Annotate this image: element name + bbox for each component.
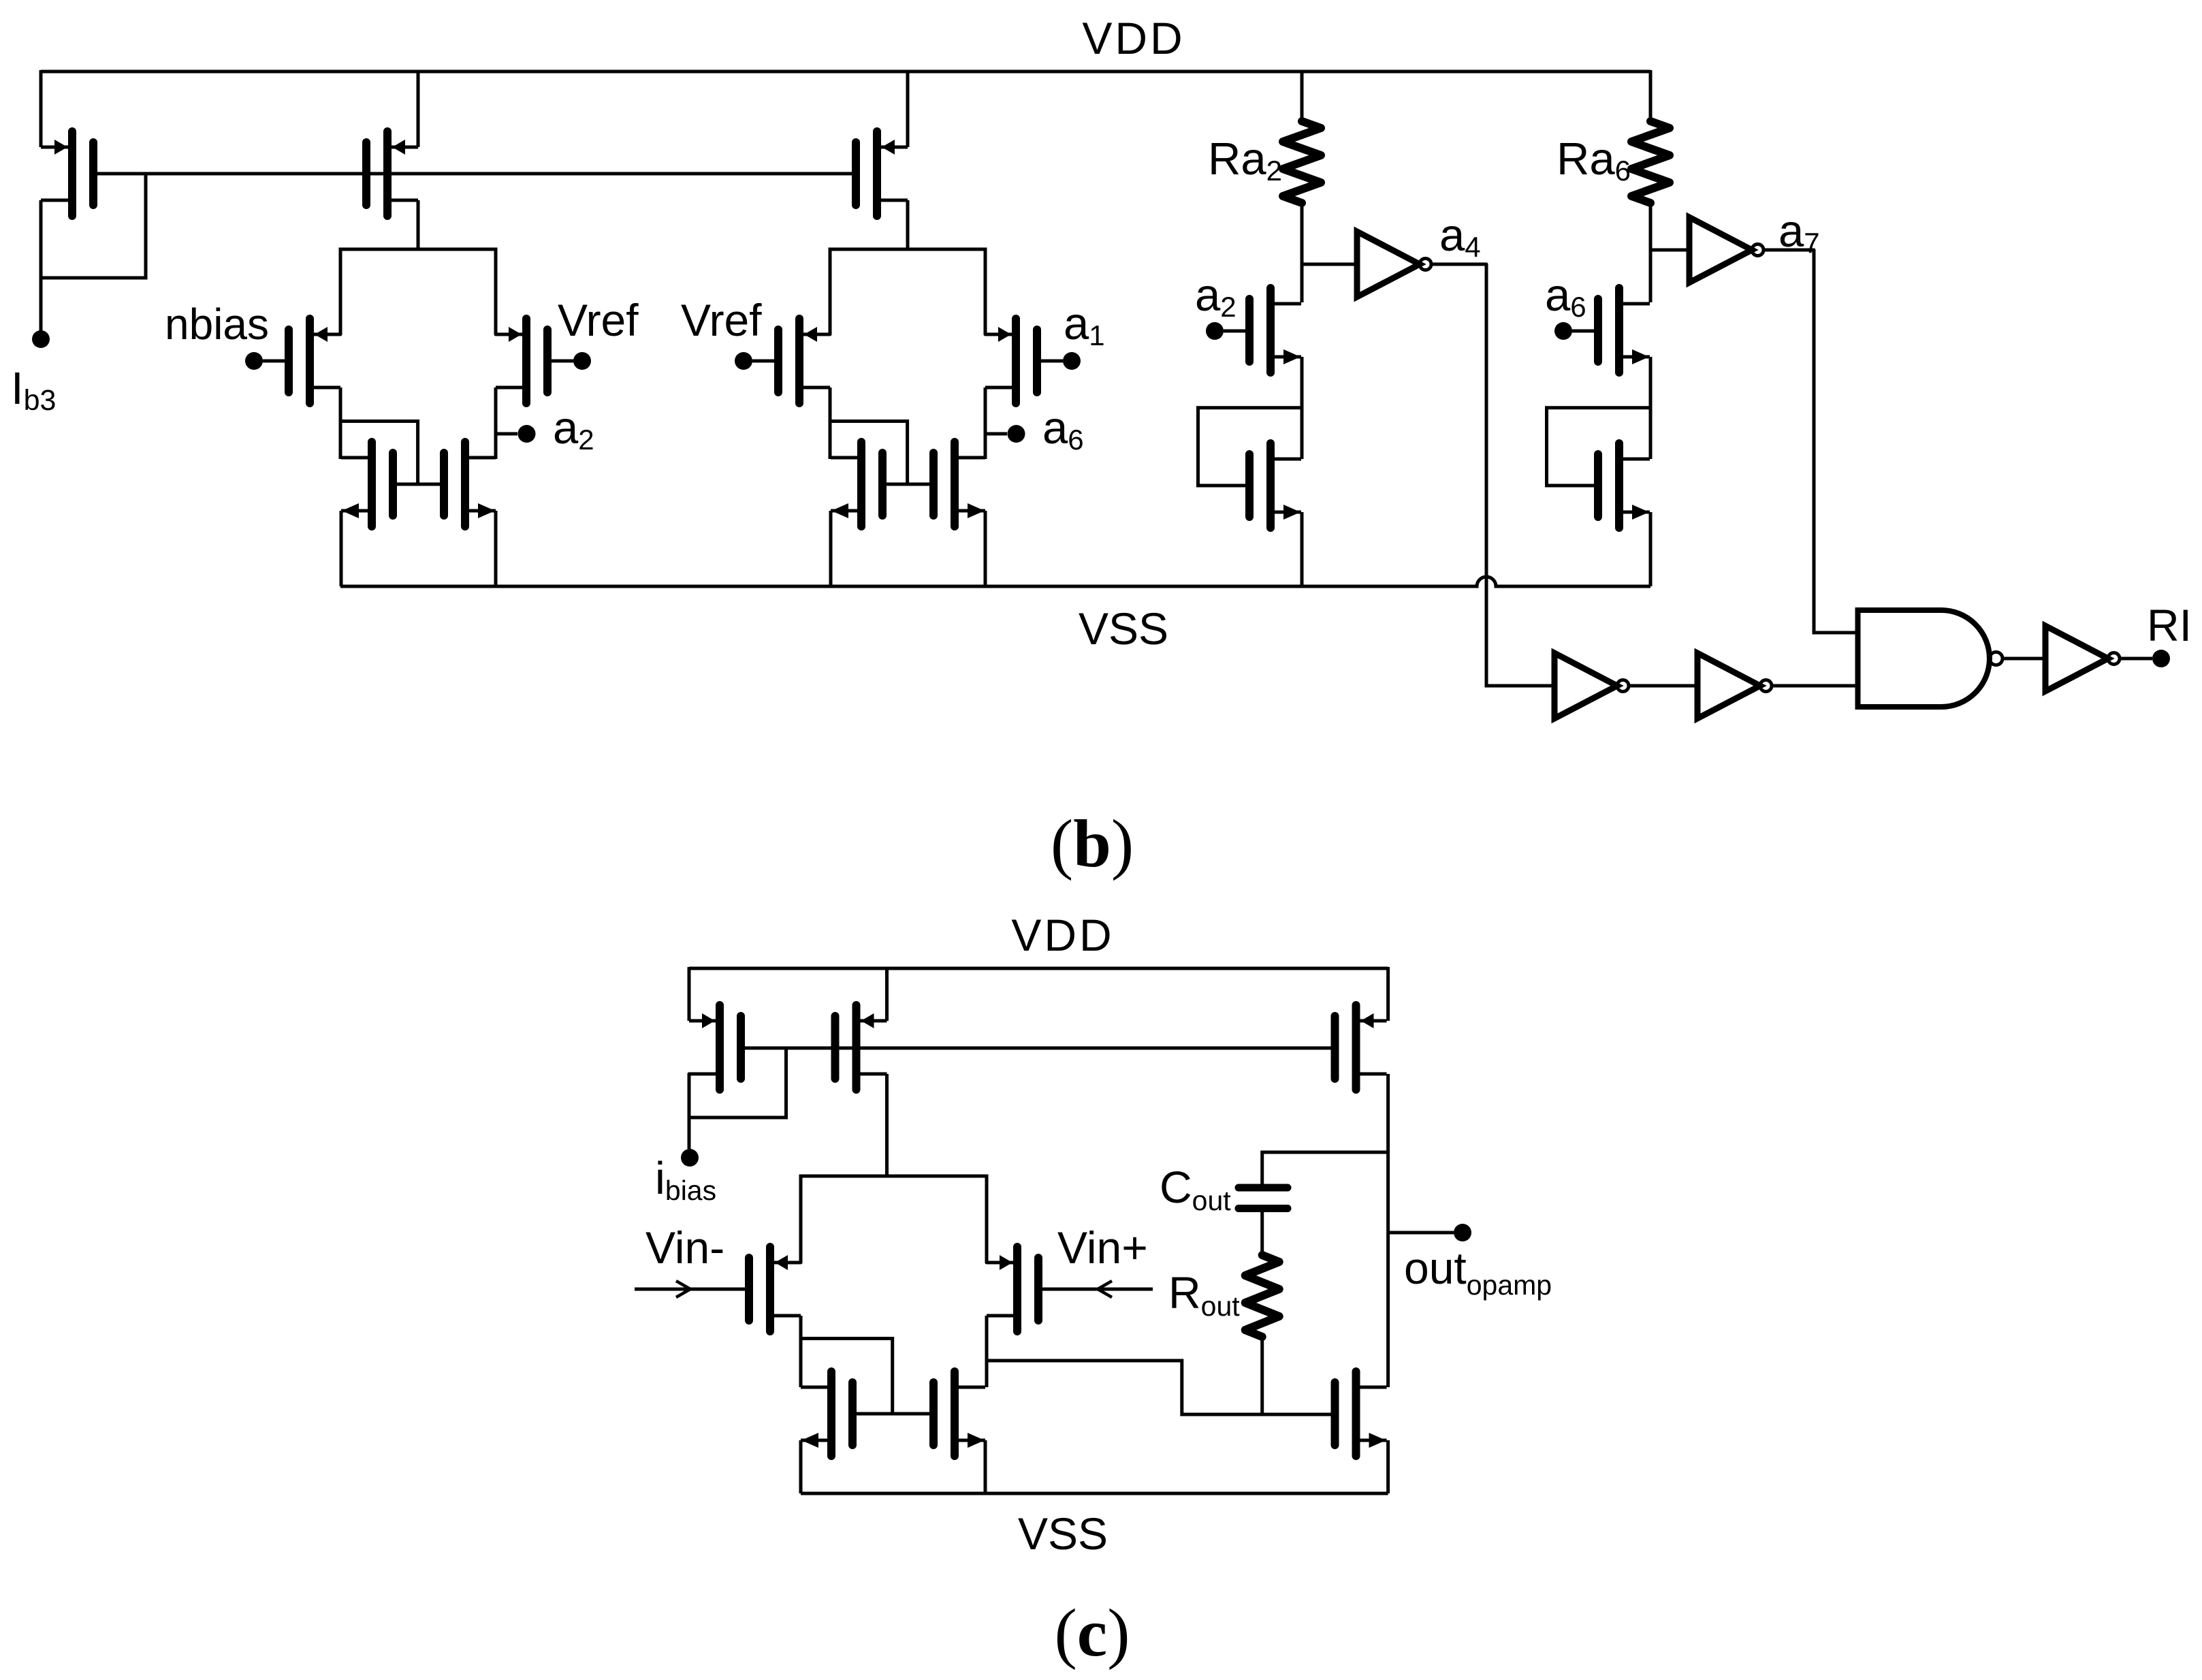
wire U4 to NAND input — [1772, 684, 1858, 688]
wire M21 source to VSS — [984, 1440, 987, 1493]
wire Ra2 to M12 drain — [1301, 202, 1304, 302]
transistor M19 (input NMOS Vin+) — [987, 1247, 1038, 1331]
wire M17 to diff pair rail — [885, 1074, 889, 1176]
diff pair top rail — [801, 1176, 987, 1263]
node a1 dot — [1063, 352, 1081, 370]
wire M9 gate — [1037, 360, 1063, 363]
net label VDD (figure c) — [1011, 910, 1114, 960]
wire M1 gate-drain loop — [41, 175, 146, 278]
svg-text:VSS: VSS — [1079, 603, 1168, 654]
wire M4 gate — [547, 360, 573, 363]
wire M6 source to VSS — [494, 511, 498, 586]
net label a1 — [1064, 298, 1105, 351]
wire NAND to U6 — [2002, 657, 2045, 661]
svg-text:RI: RI — [2147, 600, 2192, 650]
wire M13 source to VSS — [1301, 512, 1304, 586]
VDD power rail (figure b) — [41, 70, 1650, 74]
transistor M6 (mirror NMOS right, comparator 1) — [444, 442, 496, 526]
wire M16 source and ibias node — [689, 1048, 786, 1118]
node a6 gate dot — [1554, 322, 1572, 340]
inverter U1 — [1357, 232, 1431, 297]
wire a4 vertical — [1486, 264, 1554, 686]
wire M13 gate-drain loop — [1198, 408, 1303, 486]
net label a2 (gate of M12) — [1195, 270, 1236, 323]
wire out tap — [1388, 1231, 1454, 1235]
comparator 2 top rail — [830, 249, 985, 334]
wire a2 tap — [496, 432, 517, 436]
net label a4 — [1439, 210, 1481, 263]
svg-text:(c): (c) — [1054, 1595, 1130, 1670]
wire M10 gate-drain loop — [830, 422, 908, 485]
net label Ib3 — [11, 363, 56, 417]
wire M15 gate-drain loop — [1547, 408, 1651, 486]
wire ibias stem — [688, 1118, 691, 1149]
wire M20 gate-drain loop — [801, 1339, 893, 1414]
wire M20 M21 gate interconnect — [857, 1412, 929, 1416]
net label a6 (comparator 2 output) — [1042, 402, 1084, 456]
wire M7 to comparator 2 rail — [906, 200, 910, 249]
transistor M4 (input NMOS, gate Vref) — [496, 319, 547, 403]
wire VDD to M17 — [885, 967, 889, 1021]
net label Vref (comparator 1) — [558, 295, 639, 345]
wire U1 output to a4 net — [1431, 263, 1486, 266]
wire a6 tap — [985, 432, 1007, 436]
resistor Ra6 — [1631, 121, 1670, 203]
node ibias dot — [681, 1149, 699, 1167]
wire M2 to comparator 1 rail — [417, 200, 420, 249]
transistor M5 (mirror NMOS left, comparator 1) — [341, 442, 393, 526]
net label ibias — [655, 1153, 716, 1206]
transistor M14 (NMOS, gate a6) — [1598, 288, 1650, 373]
wire M20 source to VSS — [799, 1440, 803, 1493]
net label Vin- — [645, 1222, 724, 1273]
transistor M23 (output NMOS, figure c) — [1335, 1372, 1387, 1456]
wire VDD to M1 drain — [39, 70, 43, 147]
inverter U2 — [1689, 217, 1764, 283]
node Ib3 dot — [32, 330, 50, 348]
wire U6 to RI node — [2120, 657, 2152, 661]
svg-text:(b): (b) — [1051, 806, 1134, 881]
transistor M20 (mirror NMOS left, figure c) — [801, 1372, 852, 1456]
transistor M9 (input NMOS, gate a1) — [985, 319, 1037, 403]
node nbias dot — [245, 352, 263, 370]
net label RI — [2147, 600, 2192, 650]
net label Ra2 — [1208, 133, 1282, 187]
node RI dot — [2152, 650, 2170, 667]
net label VSS (figure b) — [1079, 603, 1168, 654]
wire VDD to M7 — [906, 70, 910, 147]
transistor M22 (output PMOS, figure c) — [1335, 1005, 1387, 1090]
transistor M11 (mirror NMOS right, comparator 2) — [934, 442, 985, 526]
VSS rail (figure c) — [801, 1492, 1388, 1495]
wire M1 source down to Ib3 node — [39, 200, 43, 332]
wire VDD to M2 — [417, 70, 420, 147]
wire M9 source to M11 drain — [984, 387, 987, 459]
transistor M10 (mirror NMOS left, comparator 2) — [831, 442, 882, 526]
capacitor Cout — [1239, 1188, 1288, 1209]
svg-text:Vref: Vref — [681, 295, 762, 345]
node a6 dot — [1008, 425, 1025, 443]
node a2 dot — [518, 425, 536, 443]
resistor Rout — [1245, 1255, 1279, 1337]
wire VDD corner to Ra6 — [1649, 70, 1653, 121]
transistor M13 (diode-connected NMOS, Ra2 branch) — [1249, 443, 1301, 528]
wire M3 source to M5 drain — [339, 387, 342, 459]
transistor M12 (NMOS, gate a2) — [1249, 288, 1301, 373]
net label Vin+ — [1057, 1222, 1148, 1273]
wire M3 gate — [263, 360, 289, 363]
transistor M21 (mirror NMOS right, figure c) — [934, 1372, 985, 1456]
wire M5 gate-drain loop — [340, 422, 418, 485]
wire Vin+ input with arrow — [1038, 1281, 1153, 1297]
net label Ra6 — [1557, 133, 1631, 187]
wire M5 source to VSS — [340, 511, 343, 586]
VSS rail (figure b) with crossover hop — [340, 577, 1650, 586]
transistor M7 (PMOS current source, comparator 2) — [856, 131, 908, 216]
node Vref dot (comparator 2) — [735, 352, 752, 370]
wire node to inverter U1 input — [1302, 263, 1357, 266]
transistor M2 (PMOS current source, comparator 1) — [366, 131, 418, 216]
transistor M1 (diode-connected PMOS, Ib3 branch) — [41, 131, 93, 216]
wire M10 source to VSS — [829, 511, 833, 586]
inverter U3 — [1554, 653, 1629, 718]
wire M12 gate — [1224, 330, 1249, 333]
wire M10 M11 gate interconnect — [887, 483, 929, 486]
caption (c) — [1054, 1595, 1130, 1670]
transistor M15 (diode-connected NMOS, Ra6 branch) — [1598, 443, 1650, 528]
wire M12 source to M13 drain — [1301, 357, 1304, 459]
wire M8 source to M10 drain — [829, 387, 832, 459]
node a2 gate dot — [1206, 322, 1224, 340]
wire M8 gate — [752, 360, 778, 363]
caption (b) — [1051, 806, 1134, 881]
svg-text:nbias: nbias — [165, 300, 269, 349]
VDD power rail (figure c) — [689, 967, 1388, 970]
comparator 1 top rail — [340, 249, 496, 334]
net label a7 — [1778, 206, 1820, 259]
svg-text:Vin-: Vin- — [645, 1222, 724, 1273]
wire M19 source to output NMOS gate — [987, 1361, 1331, 1414]
net label a2 (comparator 1 output) — [553, 402, 594, 456]
transistor M18 (input NMOS Vin-) — [749, 1247, 801, 1331]
wire Cout top connector — [1262, 1152, 1388, 1184]
net label outopamp — [1404, 1243, 1552, 1301]
net label Cout — [1160, 1162, 1231, 1216]
wire U3 to U4 — [1629, 684, 1697, 688]
wire Rout to gate line — [1260, 1335, 1264, 1414]
net label a6 (gate of M14) — [1545, 270, 1586, 323]
svg-text:Vin+: Vin+ — [1057, 1222, 1148, 1273]
node Vref dot (comparator 1) — [573, 352, 591, 370]
wire Cout to Rout — [1260, 1212, 1264, 1256]
wire Ra6 to M14 drain — [1649, 202, 1653, 302]
net label VDD (figure b) — [1082, 13, 1185, 63]
wire M19 source to M21 drain — [985, 1316, 989, 1387]
NAND gate U5 — [1858, 610, 2003, 707]
wire a7 vertical to NAND input — [1814, 250, 1858, 633]
wire M14 gate — [1572, 330, 1598, 333]
wire M11 source to VSS — [984, 511, 987, 586]
node outopamp dot — [1454, 1224, 1471, 1241]
wire node to inverter U2 input — [1650, 249, 1689, 252]
wire M14 source to M15 drain — [1649, 357, 1653, 459]
wire M4 source to M6 drain — [494, 387, 498, 459]
svg-text:VSS: VSS — [1018, 1508, 1108, 1559]
wire pbias gate line — [96, 172, 852, 176]
wire VDD corner to M22 — [1386, 967, 1390, 1021]
net label Rout — [1168, 1267, 1240, 1322]
svg-text:Vref: Vref — [558, 295, 639, 345]
net label VSS (figure c) — [1018, 1508, 1108, 1559]
inverter U6 — [2045, 626, 2120, 691]
wire M18 source to M20 drain — [799, 1316, 803, 1387]
wire Vin- input with arrow — [635, 1281, 749, 1297]
wire U2 output to a7 net — [1764, 249, 1814, 252]
wire M22 drain down to M23 — [1386, 1074, 1390, 1387]
net label nbias — [165, 300, 269, 349]
transistor M3 (input NMOS, gate nbias) — [289, 319, 340, 403]
svg-text:VDD: VDD — [1082, 13, 1185, 63]
wire VDD to Ra2 — [1301, 70, 1304, 121]
wire M23 source to VSS — [1386, 1440, 1390, 1493]
inverter U4 — [1697, 653, 1772, 718]
net label Vref (comparator 2) — [681, 295, 762, 345]
transistor M8 (input NMOS, gate Vref, comparator 2) — [778, 319, 830, 403]
resistor Ra2 — [1283, 121, 1321, 203]
svg-text:VDD: VDD — [1011, 910, 1114, 960]
wire M5 M6 gate interconnect — [397, 483, 440, 486]
wire PMOS mirror gate line — [745, 1047, 1331, 1050]
wire VDD to M16 drain — [688, 967, 691, 1021]
transistor M17 (PMOS mirror, figure c) — [835, 1005, 887, 1090]
transistor M16 (diode-connected PMOS, ibias) — [689, 1005, 741, 1090]
wire M15 source to VSS — [1649, 512, 1653, 586]
